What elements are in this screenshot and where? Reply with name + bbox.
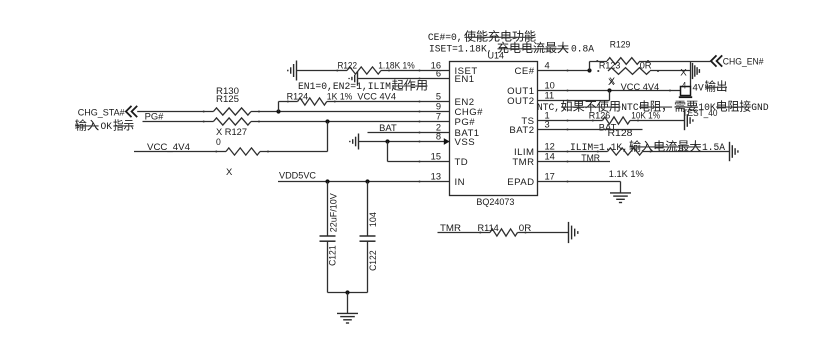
wire junction down to TD row — [387, 142, 389, 162]
svg-text:5: 5 — [436, 92, 441, 102]
svg-text:0R: 0R — [519, 223, 532, 233]
wire to pin 15 TD — [388, 161, 450, 163]
svg-text:VCC 4V4: VCC 4V4 — [621, 82, 660, 92]
port CHG_EN# — [711, 55, 717, 66]
wire TMR net to R114 — [438, 232, 491, 234]
svg-text:EN1: EN1 — [455, 74, 475, 85]
resistor R125 — [213, 118, 251, 125]
svg-text:VCC 4V4: VCC 4V4 — [357, 92, 396, 102]
capacitor C121 22uF/10V — [327, 182, 329, 237]
wire pin 17 EPAD — [538, 181, 621, 183]
ground at CE# branch rotated right — [692, 63, 694, 79]
svg-text:R128: R128 — [608, 128, 633, 138]
svg-text:EPAD: EPAD — [507, 177, 534, 188]
wire pin 4 CE# to junction — [538, 70, 590, 72]
capacitor C122 104 — [367, 182, 369, 237]
svg-text:3: 3 — [545, 120, 550, 130]
wire ground to R122 — [297, 70, 348, 72]
svg-text:4: 4 — [545, 61, 550, 71]
ground at EN1 rotated left — [357, 71, 359, 86]
svg-text:BAT: BAT — [379, 123, 397, 133]
connector TEST_40 pin 4 box — [681, 87, 691, 96]
node junction C122 — [365, 179, 369, 183]
svg-text:ISET=1.18K,: ISET=1.18K, — [429, 44, 493, 55]
wire ground to pin 6 EN1 — [358, 78, 450, 80]
svg-text:0.8A: 0.8A — [571, 44, 594, 55]
wire R125 to pin 7 PG# — [251, 121, 450, 123]
svg-text:X: X — [226, 167, 232, 177]
svg-text:17: 17 — [545, 172, 555, 182]
wire R123 to X ground — [650, 70, 691, 72]
svg-text:R122: R122 — [338, 61, 358, 71]
svg-text:15: 15 — [431, 152, 441, 162]
wire CHG_STA# net to R130 — [137, 111, 213, 113]
svg-text:CHG_EN#: CHG_EN# — [723, 56, 765, 66]
svg-text:1K 1%: 1K 1% — [327, 92, 353, 102]
svg-text:R124: R124 — [287, 92, 309, 102]
svg-text:TMR: TMR — [512, 157, 534, 168]
ground at R114 rotated right — [568, 222, 570, 243]
svg-text:C122: C122 — [368, 250, 378, 271]
wire junction down to VCC_4V4 — [327, 122, 329, 152]
wire EN2 corner down to junction — [278, 102, 280, 112]
svg-text:PG#: PG# — [145, 111, 165, 121]
svg-text:VCC_4V4: VCC_4V4 — [147, 142, 190, 152]
svg-text:输出: 输出 — [705, 79, 728, 94]
wire down to ground — [347, 293, 349, 314]
svg-text:1.1K 1%: 1.1K 1% — [609, 169, 644, 179]
wire cap bottoms join — [328, 292, 368, 294]
wire R129 to port CHG_EN# — [640, 61, 710, 63]
svg-text:IN: IN — [455, 177, 466, 188]
wire junction down to OUT2 — [609, 91, 611, 101]
wire R114 to ground — [518, 232, 569, 234]
svg-text:8: 8 — [436, 132, 441, 142]
wire R130 to pin 9 CHG# — [251, 111, 450, 113]
resistor R127 value 0 not fitted — [226, 148, 260, 155]
svg-text:22uF/10V: 22uF/10V — [329, 192, 339, 232]
svg-text:X: X — [680, 67, 687, 77]
svg-text:起作用: 起作用 — [392, 78, 429, 92]
wire VSS ground to pin 8 — [359, 141, 450, 143]
wire corner to R124 — [279, 101, 298, 103]
svg-text:电阻接: 电阻接 — [716, 99, 752, 114]
wire pin 10 OUT1 to connector — [538, 90, 681, 92]
wire R126 to ground — [630, 120, 685, 122]
svg-text:X: X — [608, 77, 615, 87]
wire R127 to junction — [260, 151, 328, 153]
svg-text:C121: C121 — [328, 245, 338, 266]
svg-text:VSS: VSS — [455, 137, 476, 148]
svg-text:10K 1%: 10K 1% — [631, 110, 660, 120]
svg-text:14: 14 — [545, 152, 555, 162]
wire pin 1 TS to R126 — [538, 120, 603, 122]
wire VCC_4V4 to R127 — [134, 151, 226, 153]
pin end ticks — [418, 69, 420, 71]
svg-text:0: 0 — [216, 137, 221, 147]
svg-text:R129: R129 — [610, 40, 631, 50]
svg-text:11: 11 — [545, 91, 555, 101]
ground at R122 rotated left — [296, 61, 298, 81]
resistor R122 1.18K — [347, 67, 381, 74]
svg-text:TMR: TMR — [440, 223, 461, 233]
wire R122 to pin 16 ISET — [381, 70, 450, 72]
wire to R129 — [590, 61, 608, 63]
svg-text:12: 12 — [545, 142, 555, 152]
svg-text:13: 13 — [431, 172, 441, 182]
svg-text:1.18K 1%: 1.18K 1% — [378, 61, 415, 71]
pin 8 VSS arrow — [444, 138, 450, 145]
resistor R130 — [213, 108, 251, 115]
svg-text:104: 104 — [368, 212, 378, 227]
svg-text:VDD5VC: VDD5VC — [279, 171, 316, 181]
ground at ILIM rotated right — [729, 142, 731, 161]
wire pin 3 BAT2 — [538, 129, 643, 131]
svg-text:PG#: PG# — [455, 117, 476, 128]
svg-text:EN1=0,EN2=1,ILIM: EN1=0,EN2=1,ILIM — [298, 81, 391, 92]
svg-text:CE#=0,: CE#=0, — [428, 32, 463, 43]
node junction C121 — [325, 179, 329, 183]
svg-text:4V: 4V — [692, 82, 704, 93]
svg-text:输入: 输入 — [75, 117, 100, 132]
wire R124 to pin 5 EN2 — [327, 101, 450, 103]
wire resistor to ground — [643, 151, 730, 153]
svg-text:9: 9 — [436, 102, 441, 112]
svg-text:BAT2: BAT2 — [509, 125, 534, 136]
svg-text:CHG_STA#: CHG_STA# — [78, 107, 126, 117]
wire down to ground — [620, 182, 622, 193]
svg-text:X R127: X R127 — [216, 127, 247, 137]
ground below capacitors — [337, 312, 358, 314]
node junction OUT1/OUT2 — [607, 88, 611, 92]
svg-text:GND: GND — [751, 102, 768, 113]
node junction CE# — [587, 68, 591, 72]
IC U14 BQ24073 body — [450, 62, 538, 196]
svg-text:R126: R126 — [589, 110, 611, 120]
svg-text:R114: R114 — [478, 223, 499, 233]
node junction PG#/VCC_4V4 — [325, 119, 329, 123]
wire pin 14 TMR — [538, 161, 611, 163]
wire port branch down to connector top — [690, 62, 692, 87]
wire VDD5VC to pin 13 IN — [278, 181, 450, 183]
wire junction up to R129 branch — [589, 62, 591, 71]
svg-text:BQ24073: BQ24073 — [476, 197, 514, 207]
wire PG# net to R125 — [143, 121, 214, 123]
ground at EPAD — [610, 192, 631, 194]
svg-text:CE#: CE# — [514, 66, 534, 77]
ground at VSS rotated left — [358, 134, 360, 150]
svg-text:10: 10 — [545, 81, 555, 91]
ground at TS rotated right — [684, 111, 686, 130]
svg-text:7: 7 — [436, 112, 441, 122]
svg-text:OUT2: OUT2 — [507, 96, 534, 107]
wire BAT to pin 2 BAT1 — [368, 132, 450, 134]
node junction at ground stem — [345, 290, 349, 294]
wire pin 11 OUT2 — [538, 100, 610, 102]
svg-text:TD: TD — [455, 157, 469, 168]
svg-text:OK: OK — [101, 121, 113, 132]
svg-text:R125: R125 — [216, 94, 239, 104]
node junction R124/CHG_STA# net — [276, 109, 280, 113]
svg-text:充电电流最大: 充电电流最大 — [497, 40, 569, 55]
svg-text:4: 4 — [682, 80, 687, 90]
svg-text:指示: 指示 — [113, 117, 134, 132]
resistor 1.1K 1% — [608, 148, 643, 155]
wire pin 12 ILIM to resistor — [538, 151, 608, 153]
svg-text:NTC,: NTC, — [537, 102, 560, 113]
node junction VSS/TD — [385, 139, 389, 143]
